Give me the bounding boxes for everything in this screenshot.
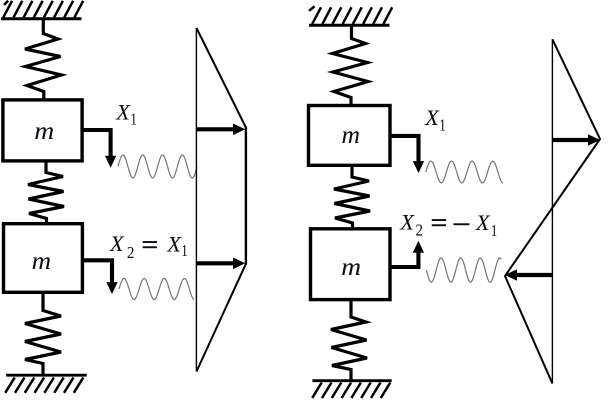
mass m2 (right): [311, 229, 391, 300]
displacement arrow X2 (right mass 2, points up): [390, 241, 424, 267]
ground (left system): [5, 375, 87, 393]
ceiling (left system): [1, 1, 83, 19]
wave (right mass 2, gray sine, phase inverted): [426, 258, 501, 282]
wave (right mass 1, gray sine): [426, 161, 503, 183]
mode 1 shape: node line: [195, 28, 197, 372]
spring k2 (right middle): [334, 166, 370, 230]
label X1 (left): [115, 100, 137, 129]
svg-text:X: X: [424, 105, 440, 130]
svg-text:X: X: [166, 231, 182, 256]
displacement arrow X1 (right mass 1): [390, 136, 424, 173]
svg-text:1: 1: [439, 116, 446, 135]
mode 2 shape: node line: [551, 39, 553, 383]
mode 2 shape: envelope: [505, 39, 600, 383]
mode 2 arrow (top, points right): [553, 134, 600, 146]
mode 2 arrow (bottom, points left): [505, 269, 552, 281]
ceiling (right system): [309, 6, 392, 25]
spring k3 (left bottom): [25, 293, 61, 376]
svg-text:m: m: [341, 254, 361, 281]
mass m1 (right): [309, 106, 391, 166]
label X2 = X1 (left): [109, 231, 188, 262]
wave (left mass 1, gray sine): [118, 155, 197, 178]
displacement arrow X1 (left mass 1): [82, 130, 116, 168]
svg-text:1: 1: [130, 109, 137, 128]
svg-text:m: m: [32, 248, 51, 275]
svg-text:X: X: [109, 231, 125, 256]
svg-text:X: X: [115, 100, 131, 125]
svg-text:m: m: [34, 118, 54, 145]
svg-text:1: 1: [491, 221, 498, 240]
label X2 = -X1 (right): [399, 210, 497, 241]
spring k1 (left top): [25, 20, 62, 100]
wave (left mass 2, gray sine): [119, 278, 194, 299]
svg-text:X: X: [399, 210, 415, 235]
displacement arrow X2 (left mass 2): [82, 260, 117, 294]
svg-text:2: 2: [127, 243, 134, 262]
mass m2 (left): [4, 224, 83, 293]
mode 1 arrow (top, mass 1 amplitude): [197, 124, 245, 136]
svg-text:m: m: [342, 122, 361, 149]
mode 1 shape: envelope: [197, 28, 246, 372]
mode 1 arrow (bottom, mass 2 amplitude): [197, 258, 245, 270]
mass m1 (left): [3, 100, 82, 161]
svg-text:2: 2: [416, 221, 424, 240]
ground (right system): [312, 381, 392, 398]
svg-text:1: 1: [181, 241, 188, 260]
spring k3 (right bottom): [331, 300, 367, 381]
label X1 (right): [424, 105, 446, 135]
spring k1 (right top): [333, 26, 369, 107]
spring k2 (left middle): [28, 161, 64, 224]
svg-text:X: X: [475, 210, 491, 235]
